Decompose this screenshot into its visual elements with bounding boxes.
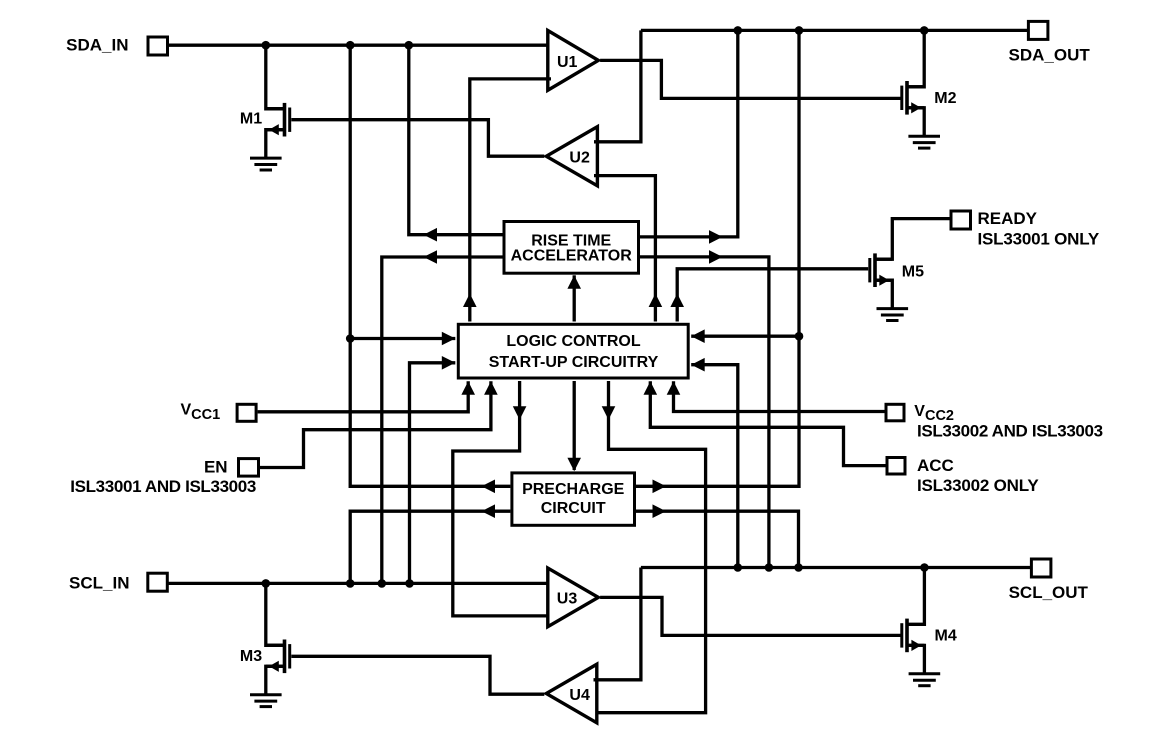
svg-text:U1: U1 [557, 54, 578, 71]
op-amp buffer U3 [546, 565, 602, 630]
node SCL_IN/accelerator junction [378, 579, 387, 588]
block LOGIC CONTROL START-UP CIRCUITRY [458, 324, 688, 378]
wire SDA_IN bus [169, 44, 550, 47]
wire M4 source [907, 645, 924, 673]
wire U3 output to M4 gate [600, 597, 902, 635]
op-amp buffer U4 [543, 661, 599, 726]
pin SCL_IN [148, 573, 168, 591]
arrow logic to U2 [649, 294, 663, 308]
node SDA_OUT/M2 junction [920, 26, 929, 35]
node SDA_IN/precharge junction [346, 41, 355, 50]
transistor M3 [283, 640, 287, 674]
wire M2 source [907, 108, 924, 136]
wire accelerator lower-right output to SCL_OUT [640, 257, 769, 568]
arrow ACC into logic [644, 381, 658, 395]
wire SCL_OUT bus [641, 566, 1032, 569]
node SCL_OUT/accelerator junction [765, 563, 774, 572]
svg-text:ISL33002 ONLY: ISL33002 ONLY [917, 476, 1039, 495]
arrow accelerator to SCL_IN [424, 250, 438, 264]
transistor M4 [905, 619, 909, 653]
wire logic to M5 gate [677, 269, 868, 322]
transistor M1 [283, 103, 287, 137]
arrow precharge to SDA_OUT [653, 480, 667, 494]
pin SDA_IN [148, 37, 168, 55]
wire SDA_IN to logic input [350, 337, 455, 340]
wire accelerator upper-right output to SDA_OUT [640, 30, 738, 237]
wire accelerator lower-left output to SCL_IN [382, 257, 503, 583]
pin VCC2 [886, 404, 904, 421]
wire VCC1 to logic [258, 381, 469, 412]
wire precharge lower-right output to SCL_OUT [636, 511, 799, 567]
wire EN to logic [260, 381, 491, 467]
svg-text:SDA_OUT: SDA_OUT [1009, 46, 1091, 65]
arrow logic into precharge [567, 458, 581, 472]
arrow accelerator to SDA_IN [424, 228, 438, 242]
pin SDA_OUT [1028, 21, 1048, 39]
ground M1 [250, 157, 282, 160]
svg-text:M4: M4 [935, 628, 957, 645]
svg-text:EN: EN [204, 457, 228, 476]
wire M1 drain [266, 45, 285, 109]
svg-text:U4: U4 [569, 687, 590, 704]
svg-text:U2: U2 [569, 149, 590, 166]
wire SCL_OUT to U4 input [594, 568, 641, 680]
arrow logic to accelerator [567, 275, 581, 289]
svg-text:ACCELERATOR: ACCELERATOR [511, 248, 633, 265]
wire SCL_IN bus [168, 582, 550, 585]
wire SCL_IN to logic input [410, 363, 456, 584]
wire logic to U3 enable [453, 381, 551, 616]
arrow precharge to SCL_OUT [653, 504, 667, 518]
wire U1 enable input [470, 79, 551, 322]
wire SCL_OUT to logic input [691, 365, 738, 568]
node SDA_IN/M1 junction [262, 41, 271, 50]
svg-text:M1: M1 [240, 111, 262, 128]
wire logic to U4 enable [594, 381, 706, 713]
arrow logic to U4 [602, 406, 616, 420]
wire logic to ACC pin [650, 381, 886, 465]
wire U1 output to M2 gate [600, 60, 902, 98]
wire logic to accelerator enable [573, 275, 576, 321]
svg-text:ISL33001 ONLY: ISL33001 ONLY [978, 229, 1100, 248]
node SDA_IN tap junction [346, 334, 355, 343]
node SDA_IN/accelerator junction [405, 41, 414, 50]
arrow SCL_OUT into logic [691, 358, 705, 372]
transistor M5 [873, 253, 877, 287]
ground M4 [909, 672, 941, 675]
svg-text:M2: M2 [934, 90, 956, 107]
wire M1 source [266, 130, 285, 158]
ground M2 [908, 135, 940, 138]
svg-text:ACC: ACC [917, 456, 954, 475]
svg-text:U3: U3 [557, 591, 578, 608]
arrow SDA_IN into logic [442, 332, 456, 346]
wire M4 drain [907, 568, 924, 625]
transistor M2 [905, 81, 909, 115]
node SCL_IN/M3 junction [262, 579, 271, 588]
arrow accelerator to SCL_OUT [709, 250, 723, 264]
op-amp buffer U1 [546, 28, 602, 94]
pin READY [951, 211, 971, 229]
wire U2 enable input [594, 176, 655, 322]
wire SDA_OUT bus [641, 29, 1029, 32]
svg-text:CIRCUIT: CIRCUIT [541, 500, 606, 517]
wire precharge lower-left output to SCL_IN [350, 511, 510, 583]
wire SDA_OUT to logic input [691, 335, 799, 338]
wire logic to VCC2 pin [674, 381, 886, 411]
arrow VCC2 into logic [667, 381, 681, 395]
wire accelerator upper-left output to SDA_IN [409, 45, 503, 235]
pin EN [239, 459, 259, 477]
svg-text:SCL_IN: SCL_IN [69, 573, 129, 592]
arrow SCL_IN into logic [442, 356, 456, 370]
wire M3 source [266, 666, 285, 694]
node SCL_OUT/precharge junction [794, 563, 803, 572]
arrow EN into logic [484, 381, 498, 395]
wire M3 drain [266, 583, 285, 645]
node SCL_OUT/logic junction [734, 563, 743, 572]
ground M3 [250, 693, 282, 696]
wire precharge upper-left output to SDA_IN [350, 45, 510, 486]
wire M5 drain to READY [875, 219, 951, 260]
svg-text:ISL33002 AND ISL33003: ISL33002 AND ISL33003 [917, 421, 1103, 440]
pin SCL_OUT [1031, 559, 1051, 577]
svg-text:START-UP CIRCUITRY: START-UP CIRCUITRY [489, 354, 659, 371]
svg-text:M3: M3 [240, 648, 262, 665]
arrow precharge to SDA_IN [482, 480, 496, 494]
pin ACC [887, 458, 905, 475]
node SCL_IN/logic junction [405, 579, 414, 588]
wire logic to precharge [573, 381, 576, 470]
block PRECHARGE CIRCUIT [512, 473, 635, 525]
svg-text:SCL_OUT: SCL_OUT [1009, 583, 1089, 602]
arrow logic to U3 [513, 406, 527, 420]
svg-text:PRECHARGE: PRECHARGE [522, 481, 625, 498]
svg-text:LOGIC CONTROL: LOGIC CONTROL [506, 333, 640, 350]
node SCL_OUT/M4 junction [920, 563, 929, 572]
arrow SDA_OUT into logic [691, 329, 705, 343]
wire U4 output to M3 gate [291, 656, 544, 694]
wire M2 drain [907, 30, 924, 86]
node SDA_OUT/logic junction [795, 26, 804, 35]
node SDA_OUT/accelerator junction [734, 26, 743, 35]
pin VCC1 [237, 404, 256, 421]
svg-text:ISL33001 AND ISL33003: ISL33001 AND ISL33003 [70, 477, 256, 496]
wire precharge upper-right output to SDA_OUT [636, 30, 799, 486]
arrow logic to U1 [463, 294, 477, 308]
node SCL_IN/precharge junction [346, 579, 355, 588]
arrow precharge to SCL_IN [482, 504, 496, 518]
ground M5 [877, 307, 909, 310]
svg-text:SDA_IN: SDA_IN [66, 36, 128, 55]
wire SDA_OUT to U2 input [594, 30, 641, 141]
wire M5 source [875, 280, 892, 308]
op-amp buffer U2 [543, 124, 599, 189]
wire U2 output to M1 gate [291, 120, 544, 157]
arrow logic to M5 [670, 294, 684, 308]
arrow VCC1 into logic [461, 381, 475, 395]
arrow accelerator to SDA_OUT [709, 230, 723, 244]
svg-text:M5: M5 [902, 264, 924, 281]
block RISE TIME ACCELERATOR [504, 222, 639, 274]
svg-text:READY: READY [978, 209, 1038, 228]
node SDA_OUT tap junction [795, 332, 804, 341]
